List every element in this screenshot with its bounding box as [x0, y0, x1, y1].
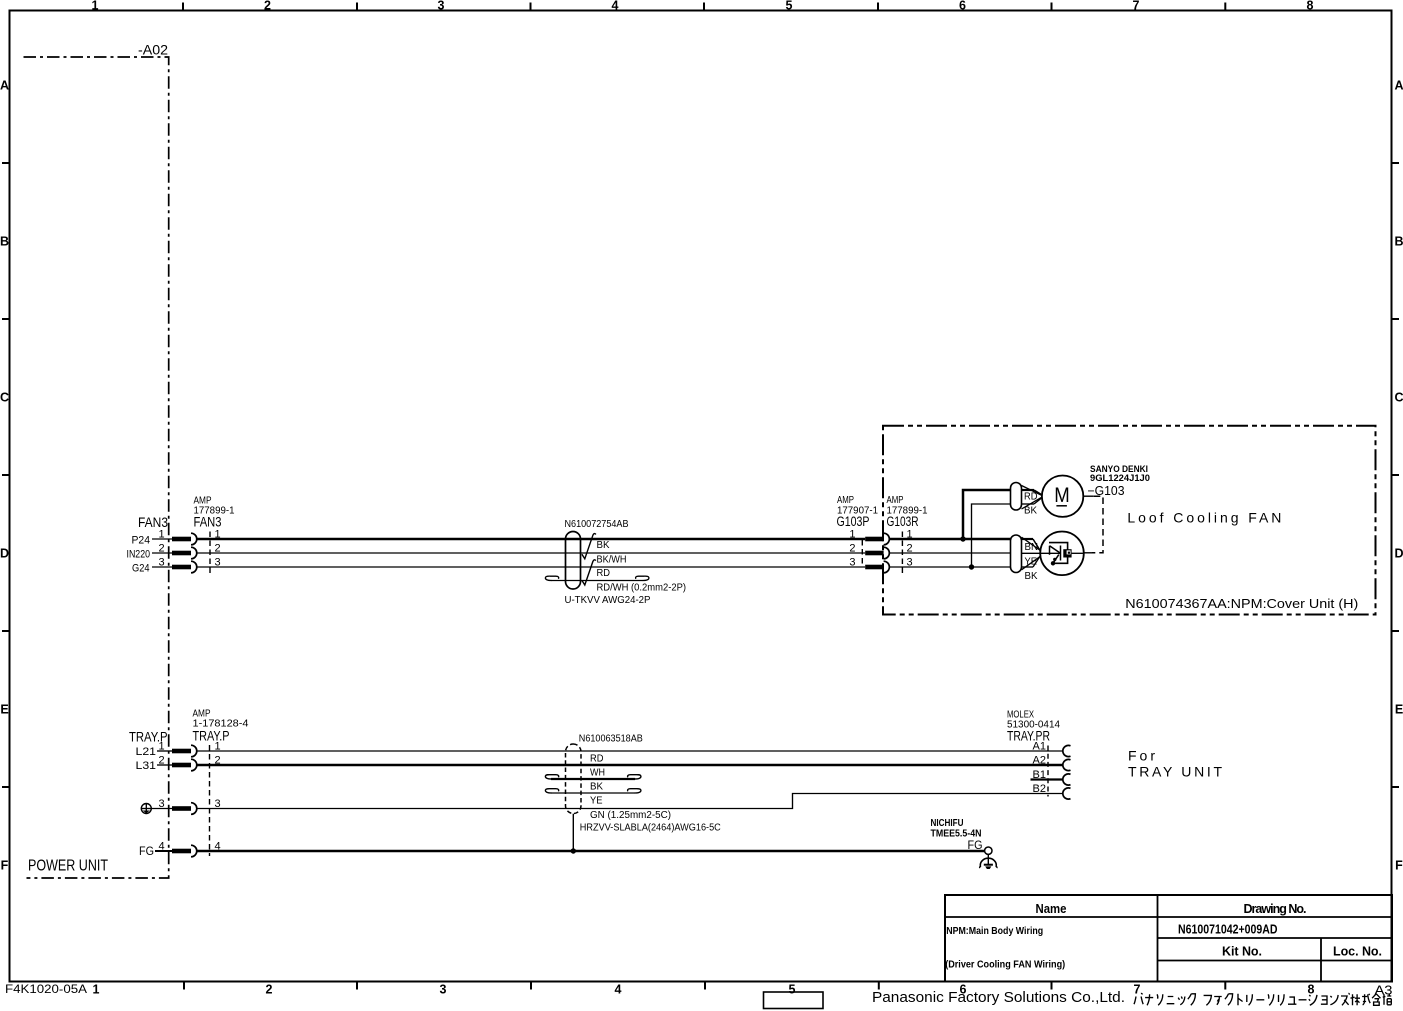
- svg-text:1: 1: [93, 983, 100, 997]
- connector G103R separator: [901, 532, 903, 574]
- wire color labels cable 1: [565, 540, 687, 606]
- fan speed sensor G103: [1040, 532, 1084, 576]
- svg-text:N610063518AB: N610063518AB: [579, 734, 643, 745]
- svg-text:7: 7: [1134, 983, 1141, 997]
- svg-text:FG: FG: [968, 840, 983, 852]
- svg-text:3: 3: [849, 557, 855, 569]
- wire L21 pin1 to TRAY.PR A1 (RD): [197, 750, 1063, 752]
- svg-text:3: 3: [158, 798, 164, 810]
- svg-text:B: B: [0, 235, 9, 249]
- svg-text:6: 6: [959, 0, 966, 13]
- svg-text:F: F: [1, 859, 9, 873]
- svg-text:Loc. No.: Loc. No.: [1333, 944, 1382, 958]
- svg-text:For: For: [1128, 748, 1155, 764]
- connector G103P separator: [861, 540, 863, 567]
- title block table: [945, 895, 1392, 982]
- motor M G103: [1042, 476, 1083, 517]
- svg-text:BK/WH: BK/WH: [597, 554, 627, 565]
- company name Japanese: [1134, 993, 1391, 1005]
- svg-text:Name: Name: [1036, 902, 1067, 916]
- wire P24 pin1 to G103P (BK) bold: [197, 538, 865, 541]
- svg-text:2: 2: [264, 0, 271, 13]
- wire G24 pin3 to G103P (RD): [197, 566, 865, 568]
- svg-text:HRZVV-SLABLA(2464)AWG16-5C: HRZVV-SLABLA(2464)AWG16-5C: [580, 823, 721, 834]
- wire stub B1 (bold): [1031, 778, 1063, 780]
- wire earth pin3 to TRAY.PR B2 (GN): [197, 794, 1063, 809]
- svg-text:3: 3: [438, 0, 445, 13]
- connector FAN3 plug side labels: [127, 515, 169, 574]
- connector TRAY.PR contact B1: [1063, 774, 1071, 785]
- svg-text:1: 1: [158, 529, 164, 541]
- label NICHIFU TMEE5.5-4N: [931, 818, 982, 840]
- svg-text:D: D: [1394, 547, 1403, 561]
- svg-text:L21: L21: [136, 746, 157, 758]
- junction node shield to FG: [571, 848, 576, 853]
- svg-text:A: A: [1394, 79, 1403, 93]
- svg-text:A1: A1: [1033, 741, 1046, 753]
- svg-text:WH: WH: [590, 768, 605, 779]
- connector TRAY.P plug side labels: [129, 730, 168, 773]
- wire stub earth pin3: [151, 808, 172, 810]
- svg-text:YE: YE: [1025, 556, 1038, 567]
- svg-text:M: M: [1054, 483, 1070, 507]
- connector TRAY.P pin 3 contact: [172, 803, 197, 815]
- junction node wire1 branch: [960, 536, 965, 541]
- connector TRAY.PR contact A1: [1063, 745, 1071, 756]
- sensor cable bundle marker: [1011, 535, 1022, 573]
- cable N610063518AB shielded bundle marker: [566, 744, 582, 814]
- svg-text:E: E: [1395, 703, 1403, 717]
- connector FAN3 receptacle labels AMP 177899-1: [194, 496, 235, 530]
- svg-text:-A02: -A02: [138, 43, 168, 58]
- svg-text:BK: BK: [590, 782, 603, 793]
- dashed link motor to sensor G103: [1083, 495, 1094, 497]
- connector G103 pin 3 contact: [865, 561, 889, 573]
- twisted pair marker RD/RDWH: [582, 560, 596, 585]
- motor wire labels: [1024, 491, 1038, 516]
- ground terminal ring: [985, 847, 992, 854]
- svg-text:F: F: [1395, 859, 1403, 873]
- sensor wire labels: [1025, 542, 1039, 582]
- junction node wire3 branch: [969, 564, 974, 569]
- drain wire RD/WH with free ends: [545, 576, 649, 580]
- svg-text:U-TKVV AWG24-2P: U-TKVV AWG24-2P: [565, 595, 651, 606]
- pin numbers TRAY.P receptacle side: [215, 741, 221, 853]
- svg-text:2: 2: [158, 755, 164, 767]
- wire stub L31 pin2: [157, 764, 172, 766]
- svg-text:G24: G24: [132, 562, 150, 574]
- pin numbers G103R side: [907, 529, 913, 569]
- cable N610072754AB bundle marker: [566, 532, 581, 590]
- shield drain to FG wire: [572, 814, 574, 851]
- svg-text:Kit No.: Kit No.: [1222, 944, 1262, 958]
- svg-text:3: 3: [440, 983, 447, 997]
- wire color labels cable 2: [580, 754, 721, 834]
- svg-text:AMP: AMP: [837, 495, 854, 506]
- connector TRAY.PR labels MOLEX 51300-0414: [1007, 710, 1060, 744]
- motor wires RD BK funnel: [1022, 486, 1042, 510]
- pin numbers FAN3 plug: [158, 529, 164, 569]
- svg-text:L31: L31: [136, 760, 157, 772]
- svg-text:C: C: [1394, 391, 1403, 405]
- connector TRAY.P separator: [209, 745, 211, 856]
- ground symbol: [980, 854, 997, 869]
- svg-text:2: 2: [158, 543, 164, 555]
- svg-text:9GL1224J1J0: 9GL1224J1J0: [1090, 473, 1150, 484]
- svg-text:Panasonic Factory Solutions Co: Panasonic Factory Solutions Co.,Ltd.: [872, 990, 1125, 1006]
- boundary -A02 POWER UNIT enclosure: [24, 57, 169, 878]
- svg-text:BK: BK: [1025, 571, 1038, 582]
- connector TRAY.P pin 1 contact: [172, 745, 197, 757]
- svg-text:8: 8: [1308, 983, 1315, 997]
- connector TRAY.PR separator: [1047, 746, 1049, 797]
- svg-text:C: C: [0, 391, 9, 405]
- wire stub IN220 pin2: [152, 552, 172, 554]
- svg-text:D: D: [0, 547, 9, 561]
- connector TRAY.PR contact B2: [1063, 788, 1071, 799]
- label SANYO DENKI 9GL1224J1J0: [1090, 464, 1150, 484]
- svg-text:N610071042+009AD: N610071042+009AD: [1178, 922, 1278, 936]
- pin numbers FAN3 receptacle side: [215, 529, 221, 569]
- wire pin2 G103R to fan: [889, 552, 1010, 554]
- svg-text:BK: BK: [1024, 506, 1037, 517]
- svg-text:RD: RD: [597, 568, 611, 579]
- svg-text:B: B: [1394, 235, 1403, 249]
- svg-text:BK: BK: [597, 540, 610, 551]
- svg-text:N610074367AA:NPM:Cover Unit (H: N610074367AA:NPM:Cover Unit (H): [1125, 596, 1358, 611]
- svg-text:G103P: G103P: [837, 514, 870, 529]
- unused wire BK with free ends (bold): [551, 778, 635, 780]
- connector TRAY.PR contact A2: [1063, 759, 1071, 770]
- svg-text:AMP: AMP: [887, 495, 904, 506]
- svg-text:RD/WH (0.2mm2-2P): RD/WH (0.2mm2-2P): [597, 583, 687, 594]
- connector FAN3 receptacle separator: [209, 532, 211, 574]
- svg-text:YE: YE: [590, 796, 603, 807]
- wire pin1 G103R to fan (bold): [889, 538, 1010, 541]
- svg-text:NPM:Main Body Wiring: NPM:Main Body Wiring: [946, 925, 1043, 937]
- svg-text:BN: BN: [1025, 542, 1039, 553]
- motor cable bundle marker: [1011, 483, 1022, 511]
- wire branch to motor BK: [972, 504, 1011, 567]
- svg-text:4: 4: [615, 983, 622, 997]
- svg-text:N610072754AB: N610072754AB: [565, 519, 629, 530]
- svg-text:2: 2: [266, 983, 273, 997]
- wire stub FG pin4: [155, 850, 172, 852]
- svg-text:TRAY UNIT: TRAY UNIT: [1128, 764, 1222, 780]
- svg-text:NICHIFU: NICHIFU: [931, 818, 964, 829]
- protective earth symbol pin3: [141, 804, 151, 814]
- wire stub G24 pin3: [152, 566, 172, 568]
- svg-text:G103R: G103R: [887, 514, 919, 529]
- wire branch to motor RD (bold): [963, 490, 1011, 539]
- connector TRAY.P receptacle labels AMP 1-178128-4: [193, 709, 249, 744]
- svg-text:F4K1020-05A: F4K1020-05A: [5, 984, 87, 996]
- connector FAN3 pin 3 contact: [172, 561, 197, 573]
- connector G103 pin 2 contact: [865, 547, 889, 559]
- connector G103P labels AMP 177907-1: [837, 495, 879, 529]
- svg-text:1: 1: [158, 741, 164, 753]
- revision box: [764, 992, 824, 1009]
- connector G103 pin 1 contact: [865, 533, 889, 545]
- twisted pair marker BK/BKWH: [582, 534, 596, 559]
- svg-text:2: 2: [849, 543, 855, 555]
- svg-text:POWER UNIT: POWER UNIT: [28, 858, 108, 875]
- wire L31 pin2 to TRAY.PR A2 (WH) bold: [197, 764, 1063, 767]
- svg-text:FAN3: FAN3: [194, 515, 222, 530]
- svg-text:4: 4: [612, 0, 619, 13]
- wire IN220 pin2 to G103P (BK/WH): [197, 552, 865, 554]
- pin labels TRAY.PR: [1033, 741, 1046, 796]
- svg-text:TRAY.P: TRAY.P: [193, 729, 230, 744]
- svg-text:FG: FG: [139, 846, 154, 858]
- svg-text:P24: P24: [132, 534, 151, 546]
- svg-text:RD: RD: [590, 754, 604, 765]
- svg-text:3: 3: [158, 557, 164, 569]
- svg-text:5: 5: [789, 983, 796, 997]
- svg-text:5: 5: [786, 0, 793, 13]
- svg-text:8: 8: [1307, 0, 1314, 13]
- unused wire YE with free ends: [545, 789, 641, 793]
- connector TRAY.P pin 2 contact: [172, 759, 197, 771]
- svg-text:4: 4: [158, 841, 164, 853]
- svg-text:A2: A2: [1033, 755, 1046, 767]
- connector TRAY.P pin 4 contact: [172, 845, 197, 857]
- svg-text:E: E: [0, 703, 8, 717]
- svg-text:RD: RD: [1024, 491, 1038, 502]
- enclosure N610074367AA Cover Unit dash-dot box: [883, 426, 1376, 615]
- svg-text:1: 1: [849, 529, 855, 541]
- svg-text:A: A: [0, 79, 9, 93]
- svg-text:(Driver Cooling FAN Wiring): (Driver Cooling FAN Wiring): [945, 959, 1065, 971]
- svg-text:TMEE5.5-4N: TMEE5.5-4N: [931, 828, 982, 839]
- svg-text:Loof Cooling FAN: Loof Cooling FAN: [1127, 509, 1281, 525]
- label For TRAY UNIT: [1128, 748, 1222, 780]
- pin numbers TRAY.P plug: [158, 741, 164, 853]
- wire pin3 G103R to fan: [889, 566, 1010, 568]
- connector G103R labels AMP 177899-1: [887, 495, 928, 529]
- pin numbers G103P side: [849, 529, 855, 569]
- svg-text:GN (1.25mm2-5C): GN (1.25mm2-5C): [590, 810, 671, 821]
- svg-text:B2: B2: [1033, 783, 1046, 795]
- svg-text:Drawing No.: Drawing No.: [1244, 902, 1307, 916]
- sensor wires BN YE BK funnel: [1022, 537, 1041, 570]
- connector FAN3 pin 1 contact: [172, 533, 197, 545]
- svg-text:7: 7: [1133, 0, 1140, 13]
- svg-text:IN220: IN220: [127, 548, 151, 560]
- wire FG pin4 to ground terminal (bold): [197, 850, 985, 853]
- connector FAN3 pin 2 contact: [172, 547, 197, 559]
- svg-text:1: 1: [92, 0, 99, 13]
- wire stub P24 pin1: [152, 538, 172, 540]
- wire stub L21 pin1: [157, 750, 172, 752]
